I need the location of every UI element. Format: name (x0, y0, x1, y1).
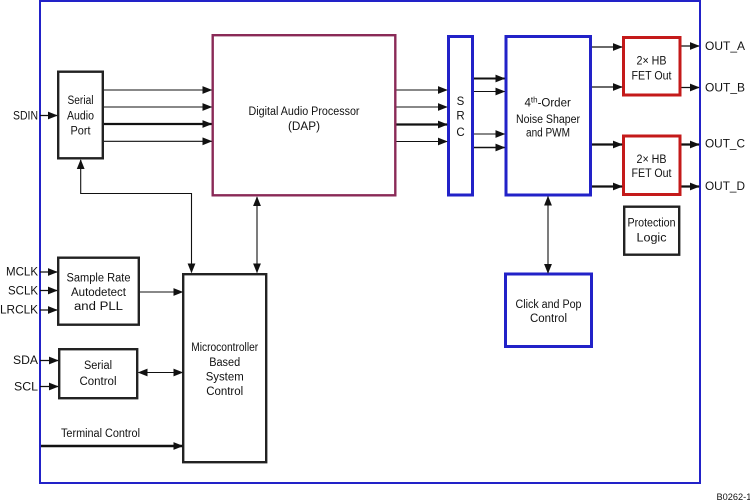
wire: FET to OUT_A arrow (682, 45, 700, 47)
label SCL (14, 381, 39, 393)
svg-text:LRCLK: LRCLK (0, 304, 38, 316)
svg-text:2× HB: 2× HB (637, 56, 667, 68)
block: 4th-Order Noise Shaper and PWM (506, 37, 591, 196)
svg-text:OUT_D: OUT_D (705, 181, 745, 193)
wire: FET to OUT_D arrow (thick) (682, 185, 700, 187)
svg-text:MCLK: MCLK (6, 267, 38, 279)
wire: SDA input arrow (40, 360, 58, 362)
wire: SCL input arrow (40, 386, 58, 388)
label OUT_C (705, 139, 745, 151)
wire: sample rate to microcontroller arrow (140, 291, 183, 293)
svg-text:SCLK: SCLK (8, 286, 38, 298)
label SDA (13, 355, 38, 367)
svg-text:SDA: SDA (13, 355, 38, 367)
label LRCLK (0, 304, 38, 316)
wire: DAP to SRC arrow 4 (397, 141, 448, 143)
wire: microcontroller to serial audio port feedback (L-shaped, arrows both ends) (81, 160, 192, 273)
svg-text:Port: Port (71, 126, 92, 138)
label OUT_B (705, 83, 745, 95)
svg-text:FET Out: FET Out (632, 168, 673, 180)
block: Microcontroller Based System Control (183, 274, 266, 462)
svg-text:SDIN: SDIN (13, 111, 38, 123)
label figure number B0262-14 (717, 492, 750, 500)
svg-text:2× HB: 2× HB (637, 154, 667, 166)
svg-text:Microcontroller: Microcontroller (191, 342, 258, 354)
svg-text:S: S (457, 96, 465, 108)
svg-text:Logic: Logic (637, 233, 667, 245)
svg-text:System: System (206, 372, 244, 384)
wire: FET to OUT_C arrow (thick) (682, 143, 700, 145)
svg-text:C: C (456, 127, 464, 139)
svg-text:Audio: Audio (67, 110, 94, 122)
wire: noise shaper to click and pop double arrow (547, 197, 549, 274)
block: SRC (449, 37, 473, 196)
svg-text:Click and Pop: Click and Pop (516, 299, 582, 311)
wire: SRC to noise shaper arrow 3 (474, 133, 505, 135)
wire: SRC to noise shaper arrow 4 (474, 147, 505, 149)
svg-text:Control: Control (530, 313, 567, 325)
wire: DAP to SRC arrow 2 (397, 106, 448, 108)
block: Sample Rate Autodetect and PLL (58, 258, 139, 325)
wire: noise shaper to bottom FET arrow 2 (thick) (592, 185, 622, 187)
block: Click and Pop Control (506, 274, 592, 347)
wire: SAP to DAP arrow 1 (104, 89, 212, 91)
wire: MCLK input arrow (40, 271, 57, 273)
svg-text:4th-Order: 4th-Order (525, 96, 571, 110)
wire: FET to OUT_B arrow (682, 87, 700, 89)
wire: DAP to SRC arrow 1 (397, 89, 448, 91)
svg-text:Control: Control (80, 376, 117, 388)
wire: SAP to DAP arrow 3 (bus, thick) (104, 123, 212, 125)
svg-text:Digital Audio Processor: Digital Audio Processor (249, 106, 360, 118)
svg-text:R: R (456, 111, 464, 123)
wire: SDIN input arrow (40, 115, 57, 117)
svg-text:Terminal Control: Terminal Control (61, 428, 140, 440)
svg-text:Serial: Serial (84, 360, 112, 372)
svg-text:Serial: Serial (68, 95, 94, 107)
wire: SAP to DAP arrow 2 (104, 106, 212, 108)
label MCLK (6, 267, 38, 279)
svg-text:and PWM: and PWM (526, 127, 570, 139)
label OUT_A (705, 41, 745, 53)
svg-text:Based: Based (209, 357, 240, 369)
svg-text:OUT_C: OUT_C (705, 139, 745, 151)
svg-text:Protection: Protection (628, 218, 676, 230)
block: 2x HB FET Out (bottom) (624, 136, 681, 195)
wire: serial control to microcontroller double arrow (139, 372, 183, 374)
block: Serial Audio Port (58, 72, 103, 159)
svg-text:Noise Shaper: Noise Shaper (516, 114, 580, 126)
svg-text:OUT_A: OUT_A (705, 41, 745, 53)
svg-text:B0262-14: B0262-14 (717, 492, 750, 500)
svg-text:Autodetect: Autodetect (71, 287, 127, 299)
wire: terminal control arrow (thick) (41, 445, 183, 448)
block: 2x HB FET Out (top) (624, 38, 681, 96)
svg-text:OUT_B: OUT_B (705, 83, 745, 95)
wire: SCLK input arrow (40, 290, 57, 292)
block: Serial Control (59, 349, 137, 398)
label SDIN (13, 111, 38, 123)
label Terminal Control (61, 428, 140, 440)
wire: noise shaper to top FET arrow 1 (592, 46, 622, 48)
svg-text:and PLL: and PLL (74, 301, 124, 313)
block: Digital Audio Processor (DAP) (213, 35, 396, 195)
svg-text:SCL: SCL (14, 381, 39, 393)
wire: DAP to microcontroller double arrow (256, 197, 258, 273)
label SCLK (8, 286, 38, 298)
wire: DAP to SRC arrow 3 (bus, thick) (397, 123, 448, 125)
svg-text:Control: Control (206, 386, 243, 398)
wire: noise shaper to top FET arrow 2 (592, 86, 622, 88)
svg-text:(DAP): (DAP) (288, 121, 320, 133)
wire: SAP to DAP arrow 4 (104, 140, 212, 142)
svg-text:FET Out: FET Out (632, 70, 673, 82)
wire: SRC to noise shaper arrow 2 (474, 91, 505, 93)
wire: SRC to noise shaper arrow 1 (thick) (474, 78, 505, 80)
block: Protection Logic (624, 207, 679, 255)
wire: noise shaper to bottom FET arrow 1 (thick) (592, 143, 622, 145)
wire: LRCLK input arrow (40, 309, 57, 311)
svg-text:Sample Rate: Sample Rate (67, 273, 131, 285)
label OUT_D (705, 181, 745, 193)
